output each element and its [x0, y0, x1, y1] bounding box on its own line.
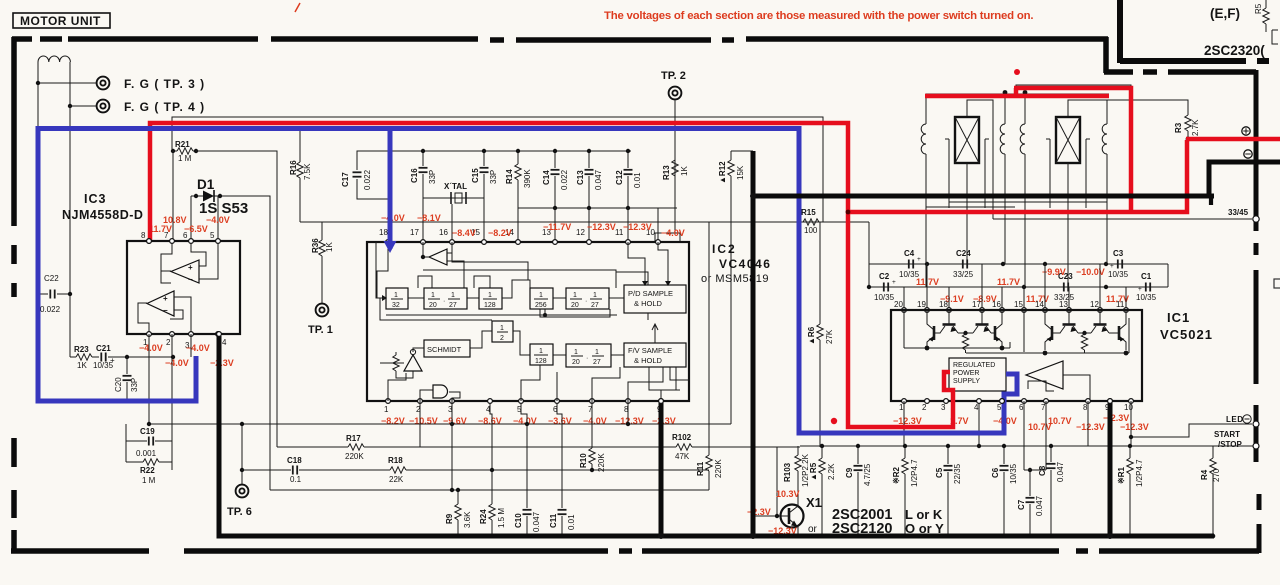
capacitor C9: [857, 446, 859, 536]
svg-text:17: 17: [972, 300, 981, 309]
svg-text:8: 8: [1083, 403, 1088, 412]
svg-text:C3: C3: [1113, 249, 1124, 258]
svg-text:C12: C12: [615, 170, 624, 185]
svg-text:VC4046: VC4046: [719, 257, 771, 271]
svg-text:33/25: 33/25: [953, 270, 974, 279]
svg-text:+: +: [188, 263, 193, 272]
svg-text:SCHMIDT: SCHMIDT: [427, 345, 462, 354]
svg-text:0.047: 0.047: [1056, 461, 1065, 482]
svg-text:R9: R9: [445, 513, 454, 524]
svg-text:LED: LED: [1226, 415, 1244, 424]
svg-text:TP. 6: TP. 6: [227, 506, 252, 518]
svg-text:·: ·: [586, 355, 588, 362]
red wire: motor loop: [925, 94, 1109, 99]
wire pin2 down: [171, 334, 173, 424]
capacitor C7: [1029, 470, 1031, 536]
wire R21 right to R16 column: [196, 151, 277, 447]
svg-text:R10: R10: [579, 453, 588, 468]
svg-text:1: 1: [595, 349, 599, 356]
svg-text:+: +: [1138, 286, 1142, 293]
svg-text:14: 14: [1035, 300, 1044, 309]
svg-text:C1: C1: [1141, 272, 1152, 281]
capacitor C4: [909, 260, 913, 269]
svg-text:128: 128: [484, 302, 496, 309]
svg-text:2.2K: 2.2K: [827, 463, 836, 480]
svg-text:0.022: 0.022: [560, 169, 569, 190]
svg-text:+: +: [110, 356, 115, 365]
capacitor C1: [1146, 283, 1150, 292]
svg-text:7.5K: 7.5K: [303, 163, 312, 180]
thick black wire: horizontal y196 to minus terminal: [753, 194, 1214, 199]
svg-text:1 M: 1 M: [142, 476, 156, 485]
svg-text:+: +: [1110, 263, 1114, 270]
svg-text:0.047: 0.047: [532, 511, 541, 532]
svg-text:C2: C2: [879, 272, 890, 281]
svg-text:1: 1: [899, 403, 904, 412]
IC1 inner rail: [904, 347, 1010, 349]
svg-text:33/45: 33/45: [1228, 208, 1249, 217]
transistor X1: [781, 505, 804, 528]
svg-text:C10: C10: [514, 513, 523, 528]
capacitor C15: [483, 151, 485, 198]
svg-text:22/35: 22/35: [953, 463, 962, 484]
IC3 pins top: [148, 230, 150, 241]
capacitor C11: [557, 403, 562, 536]
svg-text:C24: C24: [956, 249, 971, 258]
svg-text:−12.3V: −12.3V: [587, 222, 616, 232]
svg-text:8: 8: [141, 231, 146, 240]
thick black wire: IC3 pin4 down to bottom bus, bus to right: [219, 336, 1214, 536]
AND gate: [433, 385, 448, 398]
svg-text:2: 2: [922, 403, 927, 412]
resistor R12: [730, 151, 732, 424]
svg-text:33P: 33P: [428, 170, 437, 184]
svg-text:C14: C14: [542, 170, 551, 185]
resistor R17: [348, 444, 364, 450]
svg-text:P/D SAMPLE: P/D SAMPLE: [628, 289, 673, 298]
svg-text:C22: C22: [44, 274, 59, 283]
svg-text:4.7/25: 4.7/25: [863, 463, 872, 486]
svg-text:& HOLD: & HOLD: [634, 299, 663, 308]
wire to TP.4: [70, 105, 96, 107]
capacitor C14: [554, 151, 556, 208]
svg-text:10.7V: 10.7V: [1028, 422, 1052, 432]
svg-text:−12.3V: −12.3V: [893, 416, 922, 426]
svg-text:27K: 27K: [825, 329, 834, 344]
svg-text:NJM4558D-D: NJM4558D-D: [62, 208, 143, 222]
svg-text:SUPPLY: SUPPLY: [953, 378, 980, 385]
svg-text:1: 1: [431, 292, 435, 299]
resistor R3: [1187, 131, 1189, 139]
capacitor C24: [963, 260, 967, 269]
svg-text:11.7V: 11.7V: [997, 277, 1020, 287]
svg-text:220K: 220K: [597, 453, 606, 472]
wire to TP.3: [38, 82, 96, 84]
svg-text:3.6K: 3.6K: [463, 511, 472, 528]
svg-text:−: −: [163, 306, 168, 315]
cap rail nodes: [925, 262, 929, 266]
pin circles over thick wires: [217, 332, 222, 337]
red wire: plus terminal feed: [1186, 137, 1280, 142]
capacitor C22: [38, 293, 70, 295]
wire down to TP6 rail: [241, 424, 243, 484]
svg-text:−8.2V: −8.2V: [488, 228, 512, 238]
capacitor C12: [627, 151, 629, 208]
svg-text:16: 16: [992, 300, 1001, 309]
IC3 pins bottom: [147, 332, 152, 337]
blue wire: main bus: [36, 129, 1017, 434]
regulated power supply box: [949, 358, 1006, 391]
rail y424 LED: [1131, 424, 1252, 437]
svg-text:C20: C20: [114, 377, 123, 392]
svg-text:R21: R21: [175, 140, 190, 149]
schmidt to 1/2 wire: [470, 331, 492, 348]
capacitor C23: [1064, 283, 1068, 292]
svg-text:20: 20: [571, 302, 579, 309]
test point TP.1: [316, 304, 329, 317]
svg-text:TP. 1: TP. 1: [308, 324, 333, 336]
pin10 wire down: [1130, 401, 1132, 446]
svg-text:1/2P4.7: 1/2P4.7: [910, 459, 919, 487]
blue wire: drop to IC2 pin18: [388, 126, 393, 249]
svg-text:1 M: 1 M: [178, 154, 192, 163]
svg-text:START: START: [1214, 430, 1240, 439]
svg-text:C9: C9: [845, 467, 854, 478]
rail y446 below IC1: [800, 445, 1253, 447]
svg-text:15: 15: [1014, 300, 1023, 309]
svg-text:0.01: 0.01: [567, 514, 576, 530]
svg-text:390K: 390K: [523, 169, 532, 188]
divider 1/128 (2): [530, 344, 553, 365]
svg-text:※R1: ※R1: [1117, 467, 1126, 484]
capacitor C3: [1118, 260, 1122, 269]
svg-text:20: 20: [429, 302, 437, 309]
resistor R15: [800, 221, 869, 223]
svg-text:C19: C19: [140, 427, 155, 436]
rail y490: [270, 489, 709, 491]
capacitor C19: [149, 437, 153, 446]
svg-text:& HOLD: & HOLD: [634, 356, 663, 365]
svg-text:X1: X1: [806, 495, 822, 510]
svg-text:R17: R17: [346, 434, 361, 443]
test point TP.6: [236, 485, 249, 498]
svg-text:10: 10: [1124, 403, 1133, 412]
wire TP.2 down: [674, 100, 676, 233]
svg-text:5: 5: [997, 403, 1002, 412]
svg-text:270: 270: [1212, 468, 1221, 482]
motor winding coil 3: [1020, 94, 1025, 222]
svg-text:C5: C5: [935, 467, 944, 478]
svg-text:·: ·: [443, 298, 445, 305]
svg-text:−4.0V: −4.0V: [186, 343, 210, 353]
resistor R103 + transistor X1: [797, 446, 799, 506]
plus terminal mark: [1242, 127, 1250, 135]
svg-text:17: 17: [410, 228, 419, 237]
svg-text:15K: 15K: [736, 165, 745, 180]
svg-text:C15: C15: [471, 168, 480, 183]
bottom border dashed: [11, 548, 1259, 554]
svg-text:R36: R36: [311, 238, 320, 253]
resistor R4: [1212, 446, 1214, 536]
svg-text:MOTOR UNIT: MOTOR UNIT: [20, 14, 101, 28]
svg-text:1/2P4.7: 1/2P4.7: [1135, 459, 1144, 487]
svg-text:2: 2: [500, 335, 504, 342]
svg-text:1K: 1K: [325, 242, 334, 252]
test point TP.4: [97, 100, 110, 113]
node: [36, 81, 40, 85]
P/D sample & hold box: [624, 285, 686, 313]
svg-text:1: 1: [539, 348, 543, 355]
svg-text:·: ·: [585, 298, 587, 305]
svg-text:19: 19: [917, 300, 926, 309]
wire R21 to pin7 column: [172, 151, 174, 241]
resistor R5x partial at top edge: [1263, 0, 1269, 32]
svg-text:+: +: [917, 256, 921, 263]
capacitor C20: [126, 357, 128, 401]
divider 1/256: [530, 288, 553, 309]
rail y470: [242, 469, 709, 471]
motor winding coil 1: [921, 96, 926, 287]
svg-text:or: or: [808, 524, 818, 535]
blue wire: left loop down to ground rail: [38, 126, 196, 401]
svg-text:1: 1: [539, 292, 543, 299]
svg-text:C8: C8: [1038, 465, 1047, 476]
svg-text:1: 1: [573, 292, 577, 299]
svg-text:The voltages of each section a: The voltages of each section are those m…: [604, 10, 1033, 22]
IC1 pins bottom: [902, 399, 907, 404]
rail above IC2: [300, 221, 869, 223]
svg-text:C4: C4: [904, 249, 915, 258]
cap rails above IC1: [868, 222, 870, 287]
caps rail y151: [390, 150, 631, 152]
wire D1 cathode right and down: [222, 196, 270, 490]
wire D1 anode to pin6: [190, 196, 192, 241]
svg-text:0.022: 0.022: [40, 305, 61, 314]
left border dashed: [11, 37, 17, 553]
top-right border step: [1103, 37, 1109, 73]
svg-text:C6: C6: [991, 467, 1000, 478]
svg-text:−8.4V: −8.4V: [452, 228, 476, 238]
resistor R11: [708, 222, 710, 490]
svg-text:18: 18: [379, 228, 388, 237]
capacitor C2: [884, 283, 888, 292]
node: [68, 104, 72, 108]
svg-text:16: 16: [439, 228, 448, 237]
rails below caps: [518, 207, 677, 209]
svg-text:220K: 220K: [345, 452, 364, 461]
svg-text:10/35: 10/35: [1108, 270, 1129, 279]
pin 8 wire down: [1087, 401, 1089, 446]
svg-text:27: 27: [593, 359, 601, 366]
svg-text:128: 128: [535, 358, 547, 365]
svg-text:5: 5: [210, 231, 215, 240]
transistor quad pins 927-1002: [927, 310, 1002, 350]
resistor R36: [321, 222, 323, 303]
svg-text:X´TAL: X´TAL: [444, 182, 467, 191]
svg-text:0.1: 0.1: [290, 475, 302, 484]
svg-text:C21: C21: [96, 344, 111, 353]
svg-text:0.047: 0.047: [594, 169, 603, 190]
svg-text:10/35: 10/35: [1009, 463, 1018, 484]
test point TP.3: [97, 77, 110, 90]
IC2 pins bottom: [386, 399, 391, 404]
svg-text:2.7K: 2.7K: [1191, 119, 1200, 136]
svg-text:1K: 1K: [680, 166, 689, 176]
svg-text:20: 20: [894, 300, 903, 309]
capacitor C10: [521, 403, 527, 536]
svg-text:−4.0V: −4.0V: [661, 228, 685, 238]
resistor R6: [819, 222, 821, 447]
svg-text:1: 1: [384, 405, 389, 414]
crystal X'TAL: [423, 197, 484, 199]
svg-text:10/35: 10/35: [874, 293, 895, 302]
svg-text:C18: C18: [287, 456, 302, 465]
svg-text:−11.7V: −11.7V: [543, 222, 571, 232]
svg-text:3: 3: [941, 403, 946, 412]
thick black wire: IC2 pin9 down: [659, 403, 664, 536]
svg-text:−6.5V: −6.5V: [184, 224, 208, 234]
svg-text:18: 18: [939, 300, 948, 309]
divider 1/20 1/27 (3): [566, 344, 611, 367]
resistor R102: [676, 444, 692, 450]
svg-text:R13: R13: [662, 165, 671, 180]
svg-text:0.001: 0.001: [136, 449, 157, 458]
svg-text:256: 256: [535, 302, 547, 309]
red wire: main bus from IC3 pin8 to IC1: [150, 123, 953, 427]
svg-text:1: 1: [574, 349, 578, 356]
svg-text:0.047: 0.047: [1035, 495, 1044, 516]
svg-text:32: 32: [392, 302, 400, 309]
svg-text:−4.0V: −4.0V: [165, 358, 189, 368]
motor unit label box: [13, 13, 110, 28]
node dots bottom bus: [456, 534, 461, 539]
divider 1/128: [479, 288, 502, 309]
hall sensor box 1: [955, 117, 979, 163]
top border dashed: [12, 39, 1108, 40]
capacitor C17 box: [357, 151, 390, 170]
junction dots on thick wires: [750, 193, 756, 199]
op-amp A of IC3: [171, 260, 199, 283]
divider 1/2: [492, 321, 513, 342]
op-amp B of IC3: [147, 291, 174, 316]
svg-text:1: 1: [488, 292, 492, 299]
svg-text:F. G ( TP. 4 ): F. G ( TP. 4 ): [124, 100, 205, 114]
svg-text:R16: R16: [289, 160, 298, 175]
svg-text:0.01: 0.01: [633, 172, 642, 188]
svg-text:220K: 220K: [714, 459, 723, 478]
svg-text:C17: C17: [341, 172, 350, 187]
svg-text:7: 7: [1041, 403, 1046, 412]
svg-text:IC3: IC3: [84, 192, 106, 206]
wire pin5 up: [217, 196, 219, 241]
svg-text:20: 20: [572, 359, 580, 366]
svg-text:4: 4: [222, 338, 227, 347]
svg-text:100: 100: [804, 226, 818, 235]
svg-text:IC1: IC1: [1167, 310, 1190, 325]
svg-text:−12.3V: −12.3V: [1076, 422, 1105, 432]
hall sensor box 2: [1056, 117, 1080, 163]
wire pin1 down: [148, 334, 150, 424]
other unit corner top right: [1117, 0, 1123, 63]
svg-text:REGULATED: REGULATED: [953, 362, 995, 369]
svg-text:+: +: [892, 279, 896, 286]
rail y447: [277, 447, 800, 516]
resistor R14: [517, 151, 519, 208]
capacitor C21: [101, 353, 105, 362]
F/V sample & hold box: [624, 343, 686, 367]
IC1 pin numbers top: [902, 308, 907, 313]
resistor R24: [490, 403, 492, 536]
svg-text:R4: R4: [1200, 469, 1209, 480]
capacitor C6: [1003, 446, 1005, 536]
svg-text:▲R12: ▲R12: [718, 161, 727, 184]
svg-text:C16: C16: [410, 168, 419, 183]
svg-text:R3: R3: [1174, 122, 1183, 133]
svg-text:10.3V: 10.3V: [776, 489, 800, 499]
svg-text:33P: 33P: [130, 378, 139, 392]
svg-text:C7: C7: [1017, 499, 1026, 510]
svg-text:L or K: L or K: [905, 507, 943, 522]
svg-text:12: 12: [576, 228, 585, 237]
svg-text:0.022: 0.022: [363, 169, 372, 190]
resistor R13: [674, 131, 676, 208]
svg-text:1: 1: [394, 292, 398, 299]
svg-text:−12.3V: −12.3V: [623, 222, 652, 232]
svg-text:13: 13: [1059, 300, 1068, 309]
svg-text:1: 1: [451, 292, 455, 299]
svg-text:R24: R24: [479, 509, 488, 524]
SCHMIDT box: [424, 340, 470, 357]
svg-text:TP. 2: TP. 2: [661, 70, 686, 82]
C19 / R22 parallel box: [126, 424, 172, 470]
svg-text:R18: R18: [388, 456, 403, 465]
svg-text:−9.9V: −9.9V: [1042, 267, 1066, 277]
capacitor C16: [422, 151, 424, 198]
right border dashed: [1256, 70, 1259, 553]
internal wires IC2: [377, 242, 388, 298]
IC2 internal: buffer triangle: [429, 249, 447, 265]
svg-text:D1: D1: [197, 177, 215, 192]
svg-text:1: 1: [500, 325, 504, 332]
svg-text:33P: 33P: [489, 170, 498, 184]
svg-text:R102: R102: [672, 433, 692, 442]
svg-text:12: 12: [1090, 300, 1099, 309]
divider 1/32: [386, 288, 408, 309]
red wire: lower run to plus feed: [846, 140, 1187, 212]
wire pin3 down: [190, 334, 192, 357]
svg-text:R23: R23: [74, 345, 89, 354]
IC1 box: [891, 310, 1142, 401]
svg-text:4: 4: [974, 403, 979, 412]
red dot marks: [1014, 69, 1020, 75]
resistor R21: [173, 150, 196, 152]
svg-text:C11: C11: [549, 513, 558, 528]
resistor R18: [390, 467, 406, 473]
svg-text:10.8V: 10.8V: [163, 215, 187, 225]
svg-text:27: 27: [591, 302, 599, 309]
33/45 node: [993, 218, 1252, 220]
svg-text:22K: 22K: [389, 475, 404, 484]
svg-text:or MSM5819: or MSM5819: [701, 273, 769, 285]
svg-text:−4.0V: −4.0V: [206, 215, 230, 225]
FG coil top-left: [38, 56, 70, 128]
svg-text:11.7V: 11.7V: [149, 224, 172, 234]
minus terminal mark: [1244, 150, 1252, 158]
svg-text:F/V SAMPLE: F/V SAMPLE: [628, 346, 672, 355]
resistor R9: [457, 490, 459, 536]
svg-text:1: 1: [593, 292, 597, 299]
svg-text:VC5021: VC5021: [1160, 327, 1213, 342]
